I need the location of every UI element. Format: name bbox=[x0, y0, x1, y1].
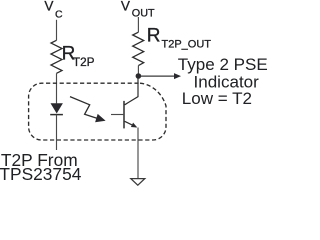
LED diode anode triangle bbox=[51, 103, 63, 113]
resistor R_T2P_OUT bbox=[133, 32, 144, 65]
wire R_T2P_OUT to node bbox=[137, 66, 139, 76]
svg-text:OUT: OUT bbox=[132, 8, 155, 20]
optocoupler dashed outline bbox=[29, 83, 166, 140]
wire R_T2P to LED anode bbox=[56, 73, 58, 103]
wire LED cathode to T2P input bbox=[56, 115, 58, 150]
net label VOUT bbox=[121, 0, 155, 20]
arrow to indicator label bbox=[141, 73, 182, 79]
net label VC bbox=[44, 0, 63, 21]
svg-text:Type 2 PSE: Type 2 PSE bbox=[178, 55, 268, 74]
node junction dot bbox=[136, 73, 142, 79]
value label R_T2P_OUT bbox=[147, 25, 211, 50]
svg-text:T2P_OUT: T2P_OUT bbox=[162, 39, 212, 51]
svg-text:R: R bbox=[147, 25, 161, 46]
wire VOUT to R_T2P_OUT bbox=[137, 17, 139, 32]
light emission arrow bbox=[70, 97, 106, 123]
label Type 2 PSE Indicator Low = T2 bbox=[178, 55, 268, 108]
transistor Q1 emitter arrowhead bbox=[131, 123, 137, 128]
wire VC to R_T2P bbox=[56, 20, 58, 41]
svg-text:V: V bbox=[121, 0, 130, 14]
resistor R_T2P bbox=[51, 40, 62, 73]
transistor Q1 emitter bbox=[125, 121, 136, 127]
transistor Q1 collector bbox=[125, 78, 138, 105]
transistor Q1 base lead bbox=[111, 114, 124, 116]
svg-text:C: C bbox=[55, 9, 63, 21]
svg-text:Low = T2: Low = T2 bbox=[182, 89, 252, 108]
label T2P From TPS23754 bbox=[0, 150, 82, 184]
svg-text:T2P: T2P bbox=[73, 55, 95, 69]
value label R_T2P bbox=[62, 43, 95, 69]
LED cathode bar bbox=[50, 114, 63, 116]
svg-text:TPS23754: TPS23754 bbox=[0, 164, 82, 184]
transistor Q1 base bar bbox=[123, 101, 125, 128]
ground symbol bbox=[131, 179, 145, 186]
svg-text:V: V bbox=[44, 0, 53, 14]
wire emitter to ground bbox=[137, 128, 139, 179]
